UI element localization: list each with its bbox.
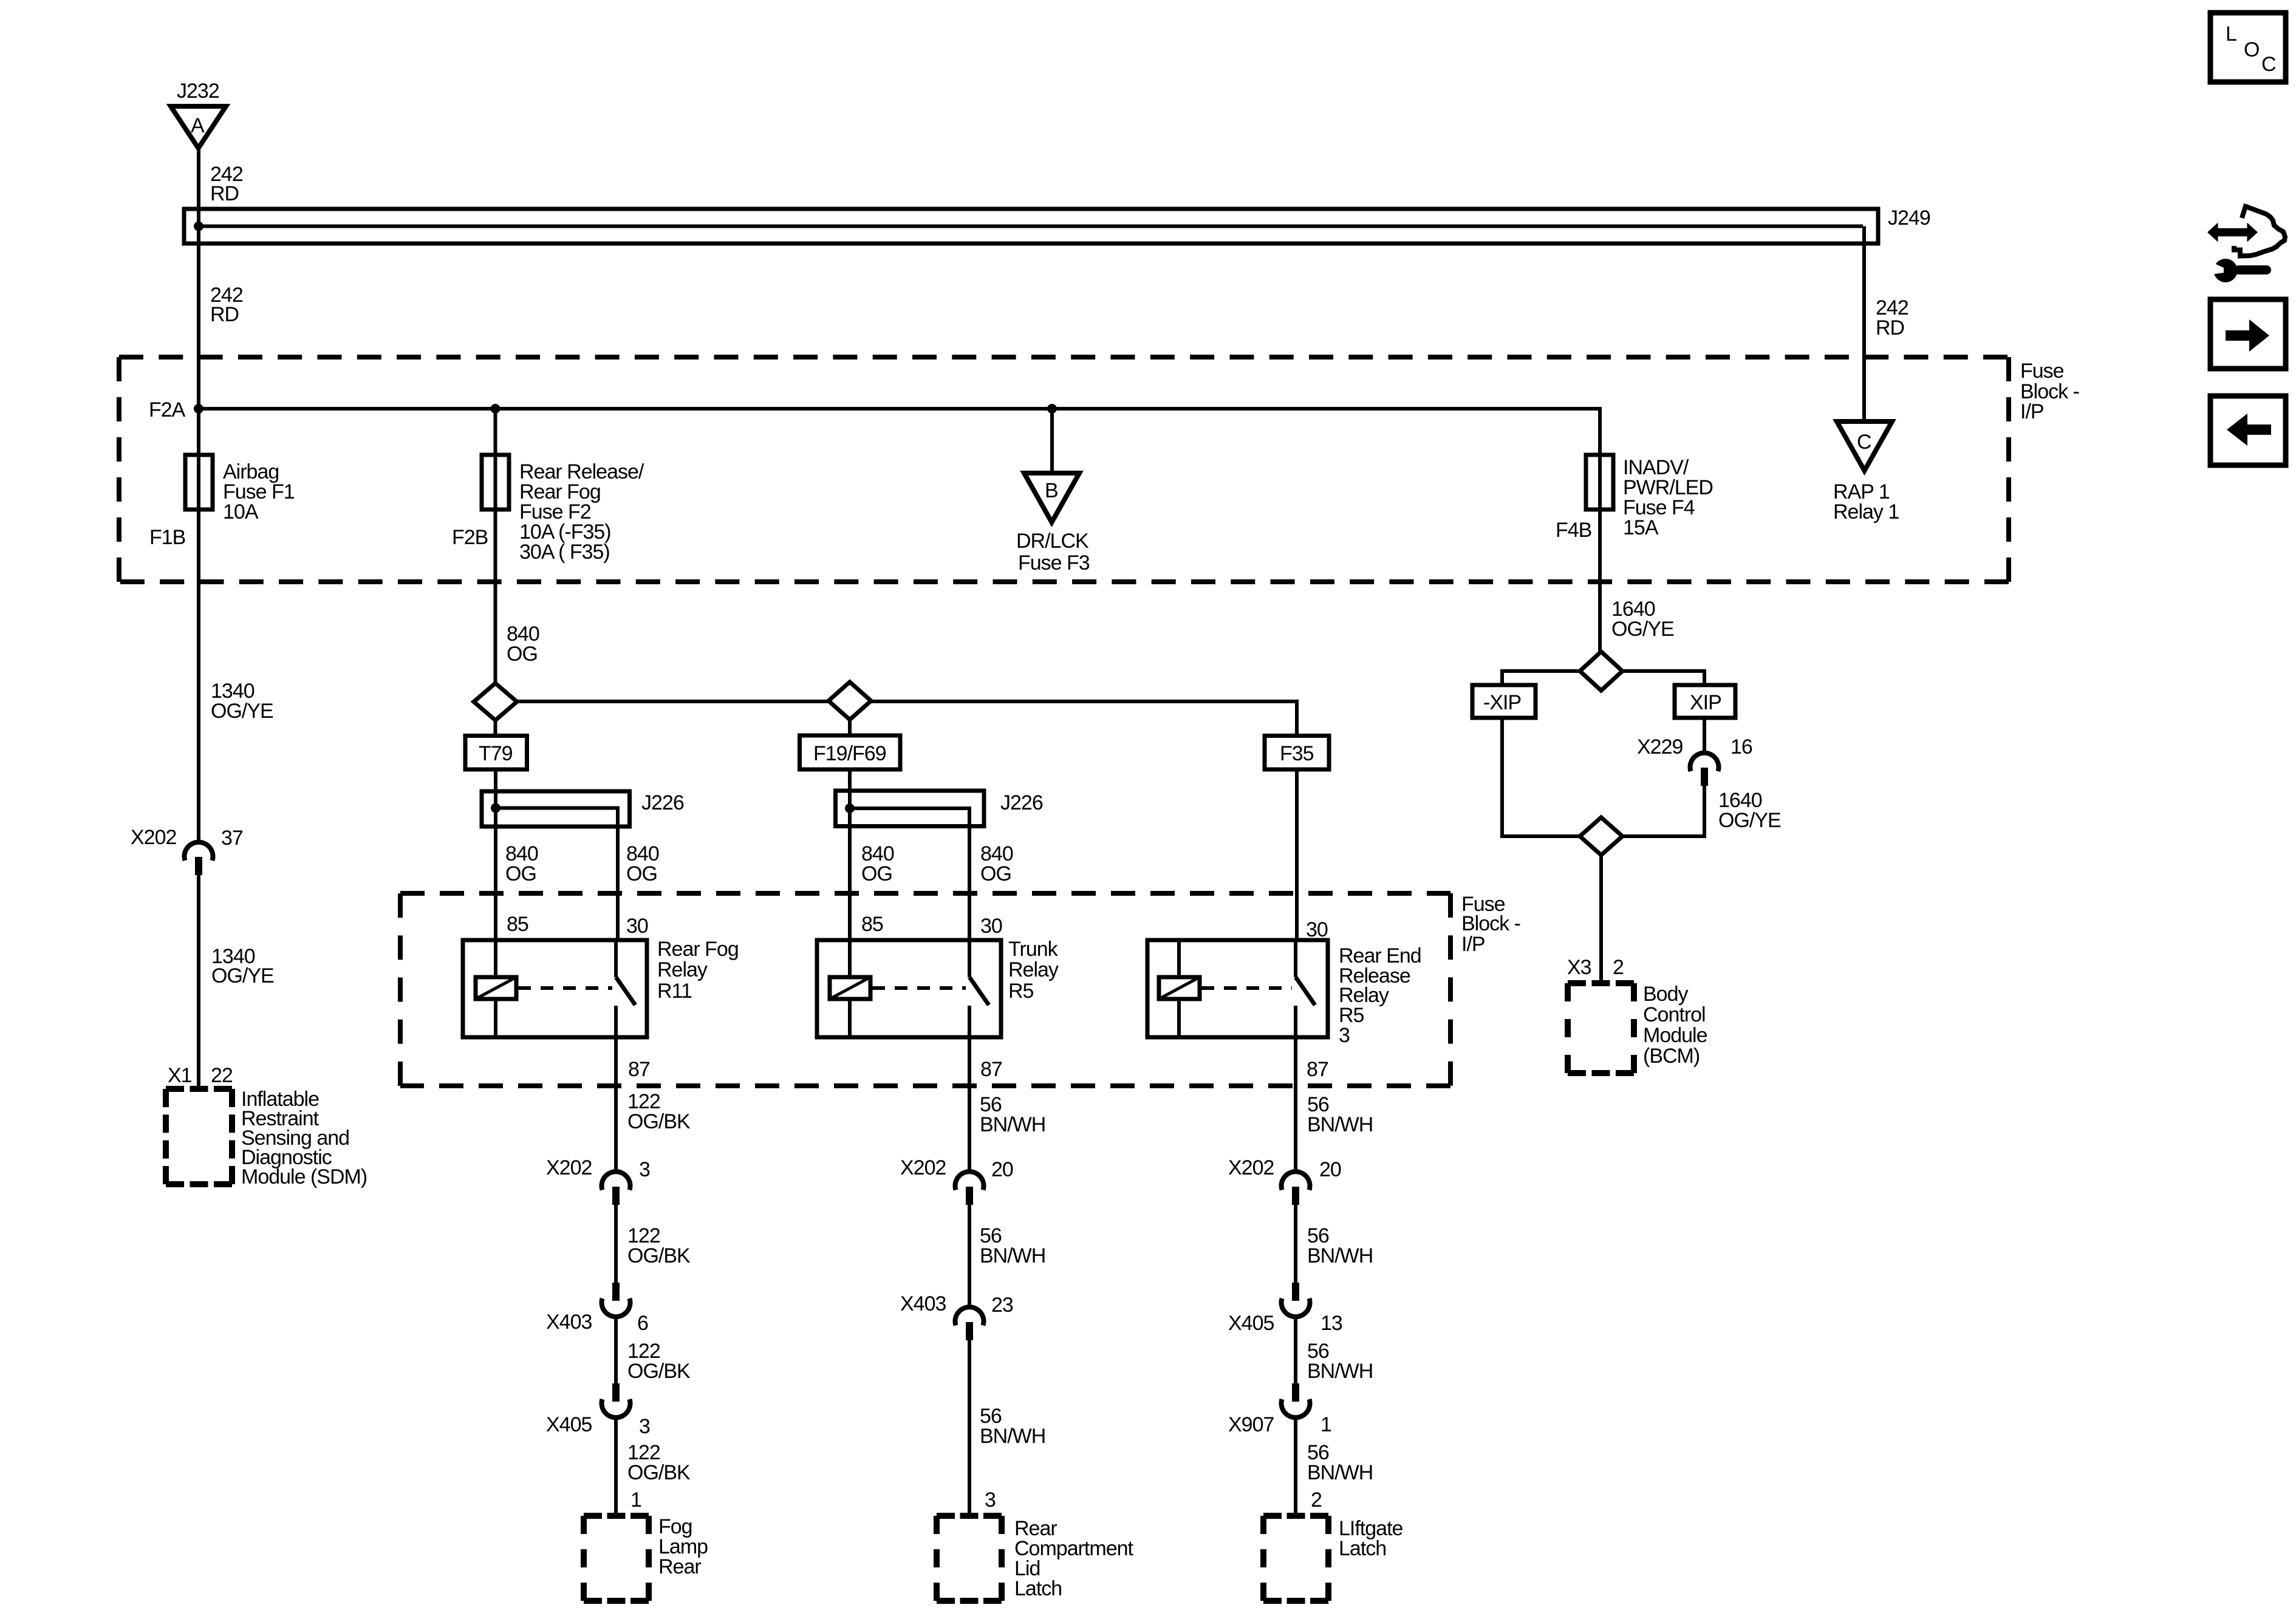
svg-text:OG/BK: OG/BK [627, 1244, 691, 1267]
icon LOC box [2210, 13, 2286, 82]
svg-text:Rear: Rear [658, 1555, 701, 1578]
wire diamond to BCM X3 [1599, 855, 1603, 985]
label Fuse Block - I/P (upper) [2020, 360, 2079, 423]
connector X202 pin 37 [185, 842, 213, 875]
junction on J226 middle [845, 803, 855, 813]
svg-text:1: 1 [1321, 1413, 1331, 1436]
svg-text:-XIP: -XIP [1483, 691, 1521, 714]
svg-text:RD: RD [210, 303, 239, 326]
wire 242 RD from J232 junction down to F2A [197, 227, 200, 409]
wire 1340 OG/YE from X202 to X1 [197, 875, 200, 1091]
label 1640 OG/YE (upper) [1611, 598, 1674, 641]
junction F2A at F3 [1047, 404, 1057, 414]
svg-text:30: 30 [980, 915, 1002, 938]
junction on J226 left [491, 803, 501, 813]
svg-text:Relay 1: Relay 1 [1833, 500, 1899, 523]
module box SDM [166, 1089, 232, 1184]
svg-text:OG/YE: OG/YE [1718, 809, 1781, 832]
relay R11 Rear Fog Relay [463, 940, 647, 1037]
label Fuse Block - I/P (lower) [1461, 893, 1520, 956]
connector X403 pin 23 [955, 1307, 983, 1340]
fuse block I/P dashed outline (lower) [400, 893, 1450, 1086]
wire 1640 OG/YE from F4 to diamond [1598, 510, 1602, 653]
label INADV/ PWR/LED Fuse F4 15A [1623, 456, 1713, 539]
svg-text:87: 87 [980, 1058, 1002, 1081]
connector X907 pin 1 [1282, 1383, 1310, 1417]
wire 840 OG from F2 to splice diamond [494, 510, 497, 685]
wire 56 BN/WH X405 to X907 [1294, 1316, 1297, 1385]
svg-text:J232: J232 [177, 80, 219, 103]
icon connector outline with double arrow [2207, 204, 2285, 256]
svg-text:6: 6 [637, 1312, 648, 1335]
connector X202 pin 3 [602, 1171, 630, 1205]
svg-text:87: 87 [628, 1058, 650, 1081]
svg-text:F4B: F4B [1556, 519, 1591, 542]
svg-text:RD: RD [210, 182, 239, 205]
splice busbar J226 (left) [482, 791, 630, 827]
svg-text:J249: J249 [1888, 206, 1930, 230]
svg-text:Relay: Relay [657, 958, 708, 981]
svg-text:87: 87 [1307, 1058, 1328, 1081]
wire X229 down and left to lower diamond [1622, 786, 1704, 836]
label 122 OG/BK (1) [627, 1090, 691, 1133]
wire F35 down to relay 30 [1295, 769, 1299, 940]
icon wrench [2211, 259, 2271, 282]
wire 122 OG/BK X202 to X403 [614, 1205, 618, 1284]
svg-text:37: 37 [221, 827, 243, 850]
wire 56 BN/WH X907 to liftgate latch [1294, 1417, 1297, 1516]
svg-text:X405: X405 [546, 1413, 592, 1436]
fuse block I/P dashed outline (upper) [119, 357, 2009, 582]
fuse F2 (Rear Release/Rear Fog) [482, 455, 509, 511]
net box F19/F69 [800, 735, 901, 769]
label 1640 OG/YE (lower) [1718, 789, 1781, 832]
label Fog Lamp Rear [658, 1515, 708, 1578]
svg-text:I/P: I/P [1461, 933, 1485, 956]
node F2A bus wire [199, 407, 1600, 411]
wire F2A to fuse F1 [197, 409, 200, 457]
svg-text:DR/LCK: DR/LCK [1016, 530, 1089, 553]
wire from J226 middle down to relay 30 [968, 808, 971, 940]
svg-text:X405: X405 [1228, 1312, 1274, 1335]
label 242 RD (lower left) [210, 284, 243, 326]
label Rear Fog Relay R11 [657, 938, 739, 1003]
svg-text:F2B: F2B [452, 526, 488, 549]
label 56 BN/WH (r3) [1307, 1340, 1373, 1383]
wire 122 OG/BK X403 to X405 [614, 1316, 618, 1385]
svg-text:X403: X403 [546, 1311, 592, 1334]
svg-text:F19/F69: F19/F69 [813, 742, 886, 765]
net box T79 [465, 736, 527, 770]
svg-text:Module (SDM): Module (SDM) [241, 1165, 367, 1188]
svg-text:BN/WH: BN/WH [1307, 1244, 1373, 1267]
connector X202 pin 20 (right) [1282, 1171, 1310, 1205]
junction on J249 [194, 222, 203, 231]
svg-text:O: O [2244, 38, 2259, 61]
connector X405 pin 3 [602, 1383, 630, 1417]
svg-text:1: 1 [630, 1488, 641, 1512]
wire 56 BN/WH X202 to X403 [968, 1205, 971, 1309]
splice busbar J249 [184, 209, 1878, 244]
svg-text:2: 2 [1311, 1488, 1322, 1512]
svg-text:L: L [2226, 22, 2236, 46]
svg-text:30A ( F35): 30A ( F35) [519, 540, 610, 564]
relay R5 3 Rear End Release Relay [1147, 940, 1328, 1037]
label Inflatable Restraint Sensing and Diagnostic Module (SDM) [241, 1088, 367, 1188]
svg-text:F2A: F2A [149, 398, 186, 421]
svg-text:85: 85 [861, 913, 883, 936]
svg-text:RD: RD [1876, 316, 1904, 339]
wire F2A to fuse F4 [1598, 407, 1602, 457]
svg-text:OG: OG [505, 862, 536, 885]
svg-text:X229: X229 [1637, 735, 1683, 759]
wire 1340 OG/YE from F1 to X202 [197, 510, 200, 844]
wire diamond to XIP [1622, 671, 1704, 687]
junction F2A at F2 [491, 404, 501, 414]
svg-text:BN/WH: BN/WH [1307, 1461, 1373, 1484]
svg-text:23: 23 [991, 1294, 1013, 1317]
splice diamond at T79 [474, 683, 517, 720]
svg-text:2: 2 [1613, 956, 1624, 979]
wire from J226 left down to relay 30 [616, 808, 620, 941]
svg-text:BN/WH: BN/WH [980, 1425, 1045, 1448]
label LIftgate Latch [1339, 1517, 1403, 1560]
label Rear Release/ Rear Fog Fuse F2 [519, 460, 644, 564]
svg-text:Trunk: Trunk [1008, 938, 1059, 961]
splice diamond above XIP [1580, 652, 1622, 690]
wire F19/F69 into J226 and down to relay coil [848, 769, 852, 940]
connector X229 pin 16 [1690, 753, 1719, 786]
horizontal wire from diamond to F35 [496, 701, 1297, 737]
label 122 OG/BK (4) [627, 1441, 691, 1484]
svg-text:30: 30 [626, 915, 648, 938]
svg-text:Body: Body [1643, 983, 1688, 1006]
svg-text:C: C [1857, 431, 1871, 454]
module box Liftgate Latch [1263, 1516, 1328, 1601]
splice busbar J226 (middle) [836, 791, 985, 827]
label Trunk Relay R5 [1008, 938, 1059, 1003]
svg-text:13: 13 [1321, 1312, 1342, 1335]
label 840 OG (below F2B) [507, 622, 539, 666]
icon back arrow box [2210, 396, 2286, 465]
svg-text:Control: Control [1643, 1003, 1706, 1026]
label 122 OG/BK (2) [627, 1224, 691, 1267]
svg-text:Fuse F3: Fuse F3 [1018, 551, 1090, 574]
svg-text:F1B: F1B [149, 526, 185, 549]
svg-text:OG/YE: OG/YE [1611, 618, 1674, 641]
wire diamond to F19/F69 box [848, 720, 852, 737]
svg-text:OG/YE: OG/YE [211, 964, 274, 987]
module box Fog Lamp Rear [584, 1516, 649, 1601]
svg-text:X1: X1 [168, 1064, 192, 1087]
svg-text:BN/WH: BN/WH [980, 1113, 1045, 1136]
svg-text:BN/WH: BN/WH [1307, 1113, 1373, 1136]
label 840 OG (left pair a) [505, 842, 538, 885]
svg-text:XIP: XIP [1690, 691, 1721, 714]
svg-text:X202: X202 [900, 1156, 946, 1179]
label 840 OG (middle pair b) [980, 842, 1013, 885]
svg-text:OG/BK: OG/BK [627, 1360, 691, 1383]
svg-text:16: 16 [1731, 735, 1752, 759]
svg-text:Module: Module [1643, 1024, 1707, 1047]
wire T79 into J226 and down to relay coil [494, 769, 497, 940]
svg-text:85: 85 [507, 913, 528, 936]
svg-text:Relay: Relay [1008, 958, 1059, 981]
svg-text:20: 20 [991, 1158, 1013, 1181]
connector X405 pin 13 [1282, 1283, 1310, 1317]
wire 122 OG/BK relay R11 to X202 [614, 1037, 618, 1173]
label 1340 OG/YE (upper) [211, 680, 273, 723]
svg-text:Latch: Latch [1014, 1577, 1062, 1600]
wire diamond to -XIP [1502, 671, 1580, 687]
svg-text:3: 3 [639, 1158, 650, 1181]
label 122 OG/BK (3) [627, 1340, 691, 1383]
junction F2A at F1 [194, 404, 203, 414]
svg-text:J226: J226 [1000, 791, 1043, 814]
triangle B (DR/LCK Fuse F3) [1024, 473, 1079, 522]
label Rear Compartment Lid Latch [1014, 1517, 1134, 1600]
svg-text:OG: OG [861, 862, 892, 885]
svg-text:C: C [2261, 53, 2276, 76]
svg-text:22: 22 [211, 1064, 233, 1087]
svg-text:20: 20 [1319, 1158, 1341, 1181]
svg-text:X202: X202 [131, 826, 176, 849]
power feed triangle A (J232) [171, 106, 226, 148]
wire -XIP down and right to lower diamond [1502, 718, 1580, 836]
svg-text:OG/BK: OG/BK [627, 1461, 691, 1484]
svg-text:I/P: I/P [2020, 400, 2044, 423]
icon forward arrow box [2210, 299, 2286, 369]
splice diamond below XIP [1580, 817, 1622, 855]
triangle C (RAP 1 Relay 1 feed) [1837, 421, 1892, 471]
module box BCM [1568, 983, 1634, 1073]
label Body Control Module (BCM) [1643, 983, 1707, 1068]
svg-text:10A: 10A [223, 500, 259, 523]
label 56 BN/WH (r4) [1307, 1441, 1373, 1484]
wire 56 BN/WH X202 to X405 [1294, 1205, 1297, 1284]
net box -XIP [1472, 685, 1536, 718]
label 56 BN/WH (m2) [980, 1224, 1045, 1267]
svg-text:X907: X907 [1228, 1413, 1274, 1436]
label Airbag Fuse F1 10A [223, 460, 295, 523]
svg-text:3: 3 [639, 1415, 650, 1438]
svg-text:15A: 15A [1623, 516, 1659, 539]
label 840 OG (middle pair a) [861, 842, 894, 885]
net box F35 [1265, 736, 1329, 770]
svg-text:Rear Fog: Rear Fog [657, 938, 739, 961]
label 56 BN/WH (m1) [980, 1093, 1045, 1136]
splice diamond at F19/F69 [829, 682, 871, 720]
relay R5 Trunk Relay [817, 940, 1001, 1037]
wire XIP to X229 [1703, 718, 1706, 754]
svg-text:R11: R11 [657, 980, 692, 1003]
svg-text:BN/WH: BN/WH [980, 1244, 1045, 1267]
svg-text:3: 3 [1339, 1024, 1350, 1047]
svg-text:OG: OG [980, 862, 1011, 885]
wire 56 BN/WH relay R5 3 to X202 [1294, 1037, 1297, 1173]
connector X202 pin 20 (middle) [955, 1171, 983, 1205]
wire 56 BN/WH X403 to latch [968, 1340, 971, 1516]
net box XIP [1675, 685, 1735, 718]
svg-text:B: B [1045, 479, 1058, 502]
fuse F1 (Airbag 10A) [185, 455, 213, 511]
svg-text:OG: OG [507, 643, 538, 666]
label 56 BN/WH (r1) [1307, 1093, 1373, 1136]
svg-text:X202: X202 [1228, 1156, 1274, 1179]
label Rear End Release Relay R5 3 [1339, 944, 1421, 1047]
label 840 OG (left pair b) [626, 842, 659, 885]
svg-text:Block -: Block - [1461, 912, 1520, 935]
connector X403 pin 6 [602, 1283, 630, 1317]
label RAP 1 Relay 1 [1833, 480, 1899, 523]
label 1340 OG/YE (lower) [211, 945, 274, 987]
fuse F4 (INADV/PWR/LED 15A) [1586, 455, 1613, 511]
module box Rear Compartment Lid Latch [937, 1516, 1002, 1601]
wire 242 RD from J249 down to relay C [1862, 227, 1866, 422]
svg-text:3: 3 [985, 1488, 996, 1512]
svg-text:Latch: Latch [1339, 1537, 1386, 1560]
svg-text:X202: X202 [546, 1156, 592, 1179]
wire F2A to fuse F2 [494, 409, 497, 457]
svg-text:OG/BK: OG/BK [627, 1110, 691, 1133]
label 56 BN/WH (m3) [980, 1405, 1045, 1448]
svg-text:T79: T79 [479, 742, 513, 765]
svg-text:F35: F35 [1280, 742, 1314, 765]
svg-text:X403: X403 [900, 1292, 946, 1315]
label 242 RD (upper left) [210, 163, 243, 205]
wire 56 BN/WH relay trunk to X202 [968, 1037, 971, 1173]
svg-text:BN/WH: BN/WH [1307, 1360, 1373, 1383]
wire F2A to triangle B [1050, 409, 1054, 473]
svg-text:30: 30 [1306, 918, 1328, 941]
svg-text:(BCM): (BCM) [1643, 1045, 1700, 1068]
label 56 BN/WH (r2) [1307, 1224, 1373, 1267]
label 242 RD (right) [1876, 296, 1908, 339]
svg-text:OG: OG [626, 862, 657, 885]
label DR/LCK Fuse F3 [1016, 530, 1090, 574]
wire 122 OG/BK X405 to fog lamp [614, 1417, 618, 1516]
wire 242 RD from A to J249 [197, 148, 200, 226]
svg-text:OG/YE: OG/YE [211, 700, 273, 723]
svg-text:J226: J226 [641, 791, 684, 814]
wire diamond to T79 [494, 720, 497, 737]
svg-text:Fuse: Fuse [2020, 360, 2064, 383]
svg-text:A: A [191, 114, 205, 137]
svg-text:X3: X3 [1567, 956, 1591, 979]
svg-text:R5: R5 [1008, 980, 1034, 1003]
